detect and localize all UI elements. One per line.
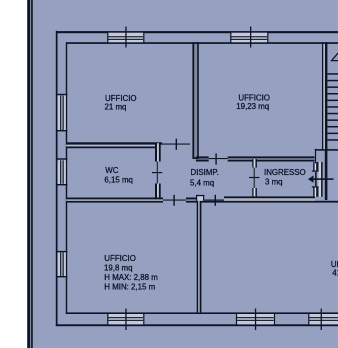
svg-text:UFFICIO: UFFICIO	[331, 260, 338, 269]
svg-text:UFFICIO: UFFICIO	[105, 94, 137, 103]
svg-text:DISIMP.: DISIMP.	[191, 168, 219, 177]
svg-text:INGRESSO: INGRESSO	[264, 168, 306, 177]
svg-text:UFFICIO: UFFICIO	[104, 254, 136, 263]
svg-text:41,0 mq: 41,0 mq	[332, 269, 338, 278]
svg-text:H MIN: 2,15 m: H MIN: 2,15 m	[104, 283, 155, 292]
svg-text:19,23 mq: 19,23 mq	[236, 102, 269, 111]
svg-text:21 mq: 21 mq	[105, 103, 127, 112]
svg-text:3 mq: 3 mq	[265, 178, 283, 187]
svg-text:H MAX: 2,88 m: H MAX: 2,88 m	[104, 273, 158, 282]
svg-text:6,15 mq: 6,15 mq	[104, 175, 133, 184]
svg-text:WC: WC	[105, 166, 118, 175]
svg-text:5,4 mq: 5,4 mq	[190, 179, 214, 188]
svg-text:19,8 mq: 19,8 mq	[104, 264, 133, 273]
svg-text:UFFICIO: UFFICIO	[238, 93, 270, 102]
